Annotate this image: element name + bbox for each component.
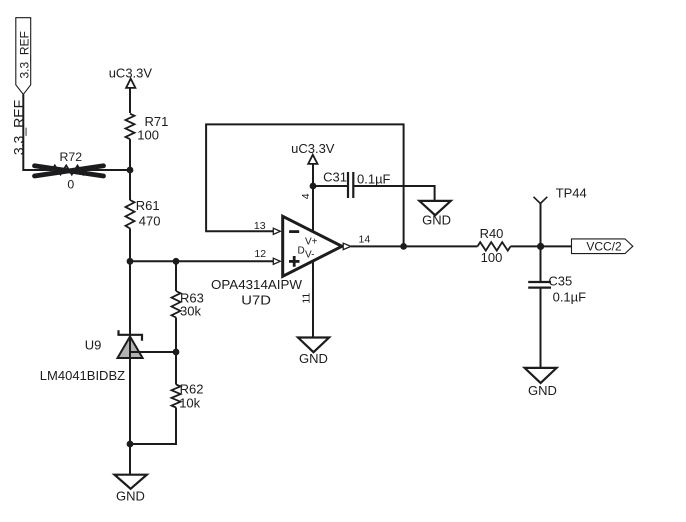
svg-text:R40: R40 bbox=[480, 226, 504, 241]
wire node D to ground bbox=[129, 444, 131, 475]
svg-text:14: 14 bbox=[359, 233, 371, 245]
svg-text:10k: 10k bbox=[179, 396, 200, 411]
svg-text:4: 4 bbox=[300, 193, 312, 199]
ground (op-amp V-) bbox=[298, 338, 329, 367]
node E junction bbox=[173, 349, 180, 356]
output wire pin 14 to R40 bbox=[351, 245, 478, 247]
node B junction bbox=[127, 258, 134, 265]
node H junction bbox=[537, 243, 544, 250]
svg-text:30k: 30k bbox=[180, 304, 201, 319]
feedback wire loop (pin13 to output) bbox=[206, 124, 404, 246]
wire R71 to node A bbox=[129, 139, 131, 200]
svg-text:D: D bbox=[298, 246, 305, 257]
svg-text:TP44: TP44 bbox=[556, 186, 587, 201]
test point TP44 bbox=[534, 186, 587, 247]
svg-text:VCC/2: VCC/2 bbox=[586, 240, 622, 254]
wire R62 bottom to node D bbox=[130, 408, 176, 445]
svg-text:OPA4314AIPW: OPA4314AIPW bbox=[211, 277, 303, 292]
resistor R72 bbox=[35, 150, 104, 191]
diode U9 (LM4041 shunt reference) bbox=[40, 330, 143, 383]
svg-text:3.3_REF: 3.3_REF bbox=[11, 100, 27, 155]
plus symbol bbox=[289, 260, 300, 263]
svg-text:U7D: U7D bbox=[241, 292, 271, 307]
svg-text:100: 100 bbox=[137, 127, 159, 142]
svg-text:V-: V- bbox=[305, 250, 314, 261]
capacitor C35 bbox=[528, 274, 586, 305]
wire R40 to node H bbox=[511, 245, 572, 247]
svg-text:C31: C31 bbox=[323, 170, 347, 185]
svg-text:U9: U9 bbox=[85, 338, 102, 353]
svg-text:R61: R61 bbox=[136, 198, 160, 213]
svg-text:R62: R62 bbox=[180, 382, 204, 397]
node D junction bbox=[127, 441, 134, 448]
svg-text:0.1µF: 0.1µF bbox=[553, 289, 587, 304]
svg-text:12: 12 bbox=[254, 248, 266, 260]
node C junction (R63 tap) bbox=[173, 258, 180, 265]
net flag 3.3_REF bbox=[16, 18, 32, 95]
node G junction (feedback tap) bbox=[400, 243, 407, 250]
svg-text:GND: GND bbox=[116, 489, 145, 504]
resistor R63 bbox=[172, 261, 204, 318]
net flag VCC/2 bbox=[572, 239, 633, 254]
wire C31 to ground bbox=[353, 186, 434, 201]
wire node H to C35 bbox=[540, 246, 542, 282]
ground (bottom left) bbox=[115, 475, 147, 504]
svg-text:13: 13 bbox=[254, 220, 266, 232]
minus symbol bbox=[289, 230, 299, 233]
svg-text:GND: GND bbox=[422, 212, 451, 227]
ground (bottom right) bbox=[525, 368, 557, 398]
wire C35 to ground bbox=[540, 288, 542, 368]
resistor R61 bbox=[126, 198, 161, 229]
wire node B to op-amp pin 12 bbox=[130, 260, 273, 262]
wire from flag to corner and to R72 bbox=[23, 94, 52, 170]
wire diode cathode down to node D bbox=[129, 261, 131, 444]
wire R72 to node A bbox=[86, 169, 130, 171]
svg-text:3.3_REF: 3.3_REF bbox=[18, 31, 32, 78]
svg-text:GND: GND bbox=[299, 351, 328, 366]
power symbol uC3.3V op-amp bbox=[291, 141, 335, 231]
resistor R40 bbox=[478, 226, 511, 265]
svg-text:R72: R72 bbox=[60, 150, 83, 164]
svg-text:11: 11 bbox=[300, 293, 312, 304]
svg-text:100: 100 bbox=[481, 250, 503, 265]
wire op-amp pin 11 to ground bbox=[312, 261, 314, 338]
svg-text:LM4041BIDBZ: LM4041BIDBZ bbox=[40, 368, 125, 383]
pin 13 input arrowhead bbox=[273, 228, 280, 234]
wire diode FB to node E bbox=[131, 351, 176, 353]
svg-text:0: 0 bbox=[67, 177, 74, 191]
svg-text:C35: C35 bbox=[548, 274, 572, 289]
pin 12 input arrowhead bbox=[273, 258, 280, 264]
svg-text:GND: GND bbox=[528, 383, 557, 398]
svg-text:V+: V+ bbox=[305, 237, 318, 248]
svg-text:470: 470 bbox=[139, 213, 161, 228]
node A junction bbox=[127, 167, 134, 174]
svg-text:0.1µF: 0.1µF bbox=[357, 172, 391, 187]
power symbol uC3.3V left bbox=[109, 66, 153, 114]
wire R63 to node E bbox=[175, 318, 177, 353]
node F junction (V+ / C31) bbox=[310, 183, 317, 190]
wire R61 to node B bbox=[129, 228, 131, 261]
resistor R71 bbox=[126, 114, 169, 143]
resistor R62 bbox=[172, 352, 204, 411]
output arrowhead pin 14 bbox=[343, 243, 351, 249]
capacitor C31 bbox=[323, 170, 390, 199]
ground (C31) bbox=[419, 201, 451, 227]
wire node F to C31 bbox=[313, 185, 348, 187]
op-amp U7D bbox=[211, 193, 370, 307]
